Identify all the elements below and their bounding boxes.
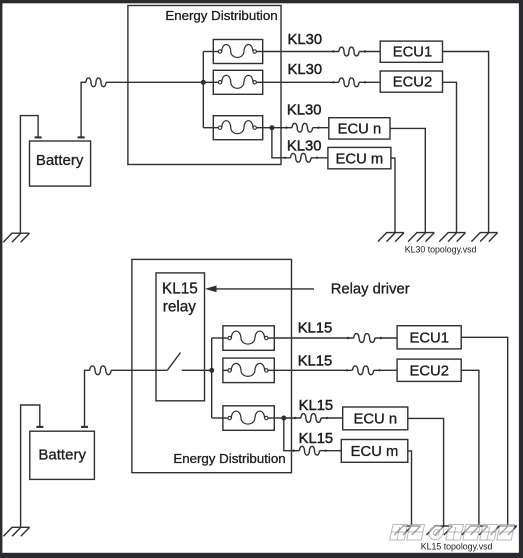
ground ECU2 (KL30) [439,233,465,242]
battery B1 negative terminal [35,136,42,138]
ECU2 label (KL30) [393,75,432,91]
wire battery B2 positive up [85,370,90,427]
resistor harness row3 (KL15) [294,414,328,423]
wire fuse F2 to resistor row2 [263,81,339,83]
svg-text:KL15: KL15 [299,431,334,447]
wire resistor to ECU m (KL30) [311,157,328,159]
svg-text:KL30: KL30 [288,62,323,78]
label KL15 net row2 [298,354,333,370]
resistor harness row3 (KL30) [285,123,320,132]
wire fuse F5 to resistor row2 [274,369,352,371]
svg-text:ECU1: ECU1 [393,45,432,61]
svg-text:Energy Distribution: Energy Distribution [165,8,277,23]
battery B1 positive terminal [78,136,85,138]
battery B2 label [38,446,86,463]
watermark zhihu [390,525,515,541]
label Energy Distribution (KL30) [165,8,277,23]
ECU n label (KL15) [354,411,398,427]
wire ECU1 to ground (KL30) [443,52,489,233]
ground battery B1 [3,233,29,242]
wire ECU n to ground (KL30) [390,128,425,232]
fuse F5 (KL15) [223,358,274,383]
ground ECU1 (KL15) [491,526,517,535]
relay K1 contact blade [167,353,180,371]
svg-text:ECU n: ECU n [338,122,382,138]
svg-text:KL15 topology.vsd: KL15 topology.vsd [421,542,493,552]
ECU n box (KL15) [343,407,408,430]
fuse F3 (KL30) [213,116,262,140]
wire ECU1 to ground (KL15) [461,337,508,526]
wire battery B1 negative to ground [20,116,38,234]
ground ECU n (KL30) [408,233,434,242]
node KL15 branch junction [281,416,286,421]
fuse F4 (KL15) [223,326,274,351]
wire fuse F6 to junction [274,417,284,419]
svg-text:KL15: KL15 [299,398,334,414]
battery B2 (KL15) [30,431,95,479]
resistor harness row4 (KL30) [284,153,319,162]
svg-text:relay: relay [163,298,197,315]
node KL15 feed junction [209,368,214,373]
wire resistor to ECU m (KL15) [320,450,342,452]
label KL15 net row4 [299,431,334,447]
label KL30 net row4 [287,138,322,154]
wire stub feed to fuse F3 [203,127,213,129]
battery B1 (KL30) [30,141,91,186]
wire KL30 feed bus [202,52,204,128]
svg-text:Energy Distribution: Energy Distribution [173,451,285,466]
node KL30 feed junction [201,80,206,85]
ECU2 label (KL15) [409,363,448,379]
ECU n label (KL30) [338,122,382,138]
resistor harness row1 (KL30) [332,47,366,56]
battery B1 label [36,152,84,169]
ECU m box (KL30) [328,147,391,168]
svg-text:ECU1: ECU1 [409,330,448,346]
svg-text:Battery: Battery [36,152,84,169]
fuse F1 (KL30) [213,40,262,64]
svg-text:Relay driver: Relay driver [331,281,410,297]
fuse F6 (KL15) [223,406,274,431]
svg-text:ECU m: ECU m [351,444,399,460]
svg-text:KL15: KL15 [162,281,198,298]
ground ECU m (KL30) [378,233,404,242]
label KL30 net row2 [288,62,323,78]
relay K1 label line1 [162,281,198,298]
wire ECU2 to ground (KL30) [443,82,457,232]
energy distribution box (KL15) [132,259,292,472]
svg-text:ECU m: ECU m [336,151,384,167]
ground ECU1 (KL30) [471,233,497,242]
svg-text:KL30 topology.vsd: KL30 topology.vsd [405,245,477,255]
resistor wiring harness battery KL15 [90,366,111,375]
node KL30 branch junction [269,125,274,130]
wire battery to distribution node (KL30) [106,81,203,83]
wire KL15 feed bus [211,338,213,418]
svg-text:KL15: KL15 [298,354,333,370]
ground ECU m (KL15) [394,526,420,535]
label KL30 net row3 [287,103,322,119]
wire stub feed to fuse F2 [203,81,213,83]
label Energy Distribution (KL15) [173,451,285,466]
ECU1 label (KL15) [409,330,448,346]
ECU1 box (KL15) [397,326,461,349]
wire ECU m to ground (KL30) [391,158,395,233]
wire fuse F3 to junction [263,127,272,129]
ground ECU n (KL15) [426,526,452,535]
wire resistor to relay contact [111,369,167,371]
wire ECU n to ground (KL15) [408,418,444,526]
ECU m label (KL30) [336,151,384,167]
ground ECU2 (KL15) [462,526,488,535]
wire resistor to ECU n (KL15) [321,417,343,419]
wire battery B2 negative to ground [21,405,40,527]
svg-text:KL15: KL15 [298,321,333,337]
battery B2 negative terminal [36,426,43,428]
ECU1 label (KL30) [393,45,432,61]
wire resistor to ECU2 (KL15) [374,369,398,371]
wire stub feed to fuse F4 [212,337,223,339]
wire relay contact to junction [182,369,212,371]
svg-text:KL30: KL30 [288,32,323,48]
wire junction to resistor row3 [272,127,292,129]
wire resistor to ECU2 (KL30) [359,81,380,83]
svg-text:ECU2: ECU2 [393,75,432,91]
svg-text:Battery: Battery [38,446,86,463]
svg-text:KL30: KL30 [287,103,322,119]
ECU2 box (KL30) [380,71,442,92]
battery B2 positive terminal [81,426,88,428]
relay K1 label line2 [163,298,197,315]
resistor wiring harness battery KL30 [86,78,106,87]
resistor harness row1 (KL15) [347,334,382,343]
wire resistor to ECU1 (KL30) [359,51,380,53]
svg-text:ECU2: ECU2 [409,363,448,379]
ECU2 box (KL15) [397,359,461,381]
wire fuse F1 to resistor row1 [263,51,339,53]
relay driver callout arrow [205,286,314,293]
label KL15 net row1 [298,321,333,337]
label KL30 net row1 [288,32,323,48]
caption KL30 topology.vsd [405,245,477,255]
wire fuse F4 to resistor row1 [274,337,354,339]
svg-text:KL30: KL30 [287,138,322,154]
ground battery B2 [3,527,29,536]
fuse F2 (KL30) [213,70,262,94]
relay K1 box (KL15 relay) [156,273,205,401]
wire junction to resistor row3 [284,417,301,419]
label KL15 net row3 [299,398,334,414]
ECU1 box (KL30) [380,41,442,62]
resistor harness row2 (KL30) [332,78,366,87]
resistor harness row4 (KL15) [293,446,327,455]
label Relay driver [331,281,410,297]
wire ECU2 to ground (KL15) [461,370,479,526]
wire resistor to ECU n (KL30) [313,127,329,129]
energy distribution box (KL30) [128,6,281,165]
caption KL15 topology.vsd [421,542,493,552]
wire resistor to ECU1 (KL15) [375,337,397,339]
wire ECU m to ground (KL15) [408,451,412,526]
resistor harness row2 (KL15) [346,366,381,375]
ECU n box (KL30) [329,118,390,139]
ECU m box (KL15) [341,440,408,463]
svg-text:ECU n: ECU n [354,411,398,427]
wire stub feed to fuse F1 [203,51,213,53]
wire battery B1 positive up [81,82,86,137]
wire junction down to row4 [272,128,291,158]
wire stub feed to fuse F6 [212,417,223,419]
wire junction down to row4 (KL15) [284,418,300,451]
ECU m label (KL15) [351,444,399,460]
